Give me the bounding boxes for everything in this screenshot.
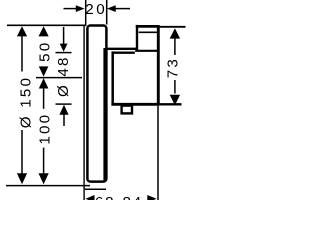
sleeve top edge xyxy=(112,52,135,54)
plate inner edge line xyxy=(103,48,105,181)
svg-text:Ø 48: Ø 48 xyxy=(55,55,72,97)
bottom-left extension line xyxy=(6,185,90,187)
extension line at 50/100 boundary xyxy=(36,77,82,79)
tab below handle xyxy=(122,106,132,114)
handle left edge xyxy=(136,25,138,50)
dimension 50 line xyxy=(39,26,49,36)
Ø48 bottom extension line xyxy=(56,103,72,105)
svg-text:Ø 150: Ø 150 xyxy=(17,76,34,128)
handle top inner line xyxy=(139,31,157,33)
svg-text:20: 20 xyxy=(85,1,107,18)
short extension line above bottom dim xyxy=(85,188,106,190)
svg-text:100: 100 xyxy=(36,113,53,145)
dimension Ø150 line xyxy=(17,26,27,36)
plate outline xyxy=(87,26,106,182)
dimension 100 line xyxy=(43,88,45,109)
sleeve left edge xyxy=(111,51,114,105)
handle front extension line down xyxy=(157,106,159,200)
top extension line right xyxy=(159,26,186,28)
top extension line left xyxy=(7,24,86,26)
front face extension line for dim 20 xyxy=(106,0,108,25)
svg-text:68-84: 68-84 xyxy=(95,194,143,200)
svg-text:50: 50 xyxy=(37,41,54,62)
wall extension line xyxy=(85,0,87,26)
dimension 20 right arrow xyxy=(116,8,131,10)
dimension 73 line xyxy=(170,28,180,38)
step line plate to handle xyxy=(105,48,138,50)
Ø48 top extension line xyxy=(56,52,72,54)
handle front edge xyxy=(157,25,160,104)
handle top edge xyxy=(136,25,160,28)
bottom edge thick xyxy=(111,103,159,106)
svg-text:73: 73 xyxy=(165,57,182,78)
bottom extension line to 73 arrow xyxy=(160,103,182,105)
bottom dimension arrows (clipped) xyxy=(86,195,95,203)
dimension 20 left arrow xyxy=(64,8,77,10)
handle body joint line xyxy=(135,50,159,52)
dimension Ø48 line xyxy=(63,27,65,44)
